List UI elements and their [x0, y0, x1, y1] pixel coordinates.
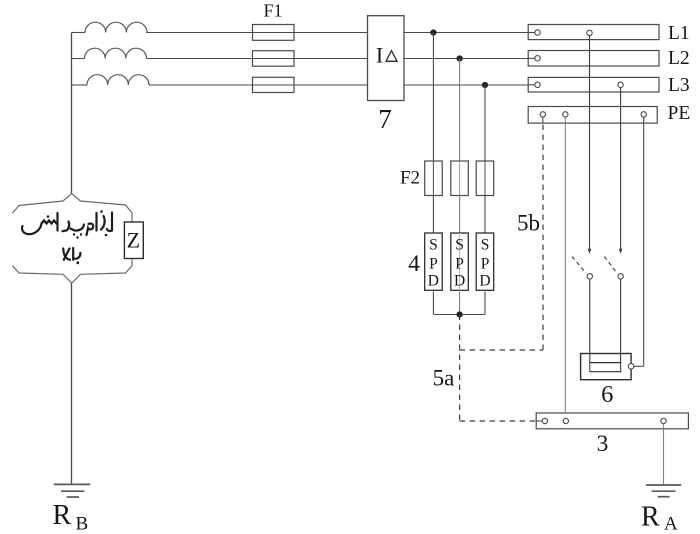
- wire 5a dashed vertical: [459, 315, 461, 422]
- terminal disconnector 1: [587, 274, 592, 279]
- terminal bar3-c: [661, 418, 666, 423]
- terminal PE-c: [641, 112, 646, 117]
- inductor winding W3 (phase L3): [87, 75, 149, 85]
- inductor winding W1 (phase L1): [85, 22, 147, 32]
- wire 5b dashed vertical to PE: [542, 123, 544, 350]
- svg-text:4: 4: [408, 251, 420, 277]
- wire L2 conductor: [72, 58, 85, 60]
- terminal bar3-b: [563, 418, 568, 423]
- annotation Persian line 1 (open or impedance): [22, 213, 112, 236]
- svg-text:F1: F1: [263, 1, 282, 21]
- ground RA: [646, 484, 681, 486]
- svg-text:S: S: [455, 236, 464, 253]
- svg-text:L1: L1: [668, 23, 690, 44]
- svg-text:P: P: [481, 256, 490, 273]
- SPD device column 3: [476, 233, 494, 290]
- junction node L1/SPD: [430, 29, 436, 35]
- wire disconnector 1 to device 6: [589, 279, 591, 372]
- wire disconnector gap 2 from L3 busbar: [620, 88, 622, 252]
- svg-text:5b: 5b: [517, 211, 540, 236]
- svg-text:6: 6: [601, 381, 613, 408]
- terminal L2-a: [535, 56, 540, 61]
- SPD device column 2: [451, 233, 469, 290]
- fuse F2 column 3: [476, 161, 494, 196]
- terminal L1-b: [587, 30, 592, 35]
- svg-text:P: P: [429, 256, 438, 273]
- busbar L3: [528, 77, 659, 92]
- terminal L1-a: [535, 30, 540, 35]
- terminal L3-a: [535, 82, 540, 87]
- svg-text:D: D: [428, 273, 439, 290]
- svg-text:R: R: [641, 502, 660, 533]
- fuse F2 column 1: [425, 161, 443, 196]
- RCD U7 (residual current device IΔ): [368, 16, 405, 101]
- terminal device 6: [628, 364, 634, 370]
- svg-text:P: P: [455, 256, 464, 273]
- wire bar 3 to earth RA: [663, 424, 665, 485]
- svg-text:B: B: [76, 514, 89, 534]
- fuse F2 column 2: [451, 161, 469, 196]
- busbar L1: [528, 25, 659, 40]
- terminal bar3-a: [542, 418, 547, 423]
- junction node SPD common: [457, 311, 463, 317]
- disconnector dashed blade 2: [604, 257, 617, 274]
- wire disconnector 2 to device 6: [620, 279, 622, 372]
- svg-text:7: 7: [378, 104, 392, 134]
- wire 5a dashed horizontal to bar 3: [460, 420, 537, 422]
- wire SPD common bus: [433, 314, 485, 316]
- svg-text:5a: 5a: [433, 366, 455, 391]
- impedance Z: [124, 222, 143, 259]
- wire PE terminal-c to device 6: [643, 117, 645, 366]
- busbar PE: [528, 107, 657, 124]
- terminal PE-a: [540, 112, 545, 117]
- device 6 inner element: [590, 362, 622, 364]
- wire L3 conductor: [72, 84, 88, 86]
- wire star-point vertical (transformer neutral): [71, 33, 73, 194]
- wire L1 conductor: [72, 32, 86, 34]
- svg-text:S: S: [481, 236, 490, 253]
- wire 5b dashed horizontal: [460, 349, 543, 351]
- annotation Persian line 2 (high): [63, 248, 80, 260]
- junction node L2/SPD: [457, 55, 463, 61]
- wire stub into bar 3: [536, 420, 542, 422]
- svg-text:L2: L2: [668, 48, 690, 69]
- fuse F1 phase L1: [253, 25, 295, 41]
- wire SPD column 2: [459, 59, 461, 162]
- earthing busbar 3: [536, 413, 688, 429]
- terminal disconnector 2: [618, 274, 623, 279]
- inductor winding W2 (phase L2): [85, 48, 147, 58]
- device 6 measuring unit outer box: [581, 354, 632, 380]
- svg-text:D: D: [454, 273, 465, 290]
- terminal PE-b: [563, 112, 568, 117]
- SPD device column 1: [425, 233, 443, 290]
- svg-text:S: S: [429, 236, 438, 253]
- svg-text:F2: F2: [400, 168, 420, 189]
- terminal L3-b: [618, 82, 623, 87]
- busbar L2: [528, 51, 659, 67]
- svg-text:I: I: [376, 42, 383, 67]
- svg-text:L3: L3: [668, 75, 690, 96]
- junction node L3/SPD: [482, 82, 488, 88]
- impedance cloud outline (open or high impedance): [13, 194, 133, 223]
- wire disconnector gap 1 from L1 busbar: [589, 36, 591, 252]
- svg-text:R: R: [53, 500, 72, 531]
- svg-text:3: 3: [597, 431, 609, 457]
- svg-text:Z: Z: [127, 228, 140, 253]
- wire PE terminal-b to earthing bar 3: [564, 117, 566, 418]
- svg-text:D: D: [479, 273, 490, 290]
- ground RB: [54, 483, 91, 485]
- svg-text:PE: PE: [668, 103, 691, 124]
- fuse F1 phase L3: [253, 77, 295, 92]
- wire SPD column 1: [432, 33, 434, 162]
- disconnector dashed blade 1: [572, 257, 586, 274]
- wire cloud to earth RB: [71, 283, 73, 484]
- wire SPD column 3: [484, 85, 486, 161]
- fuse F1 phase L2: [253, 51, 295, 66]
- svg-text:A: A: [664, 514, 678, 534]
